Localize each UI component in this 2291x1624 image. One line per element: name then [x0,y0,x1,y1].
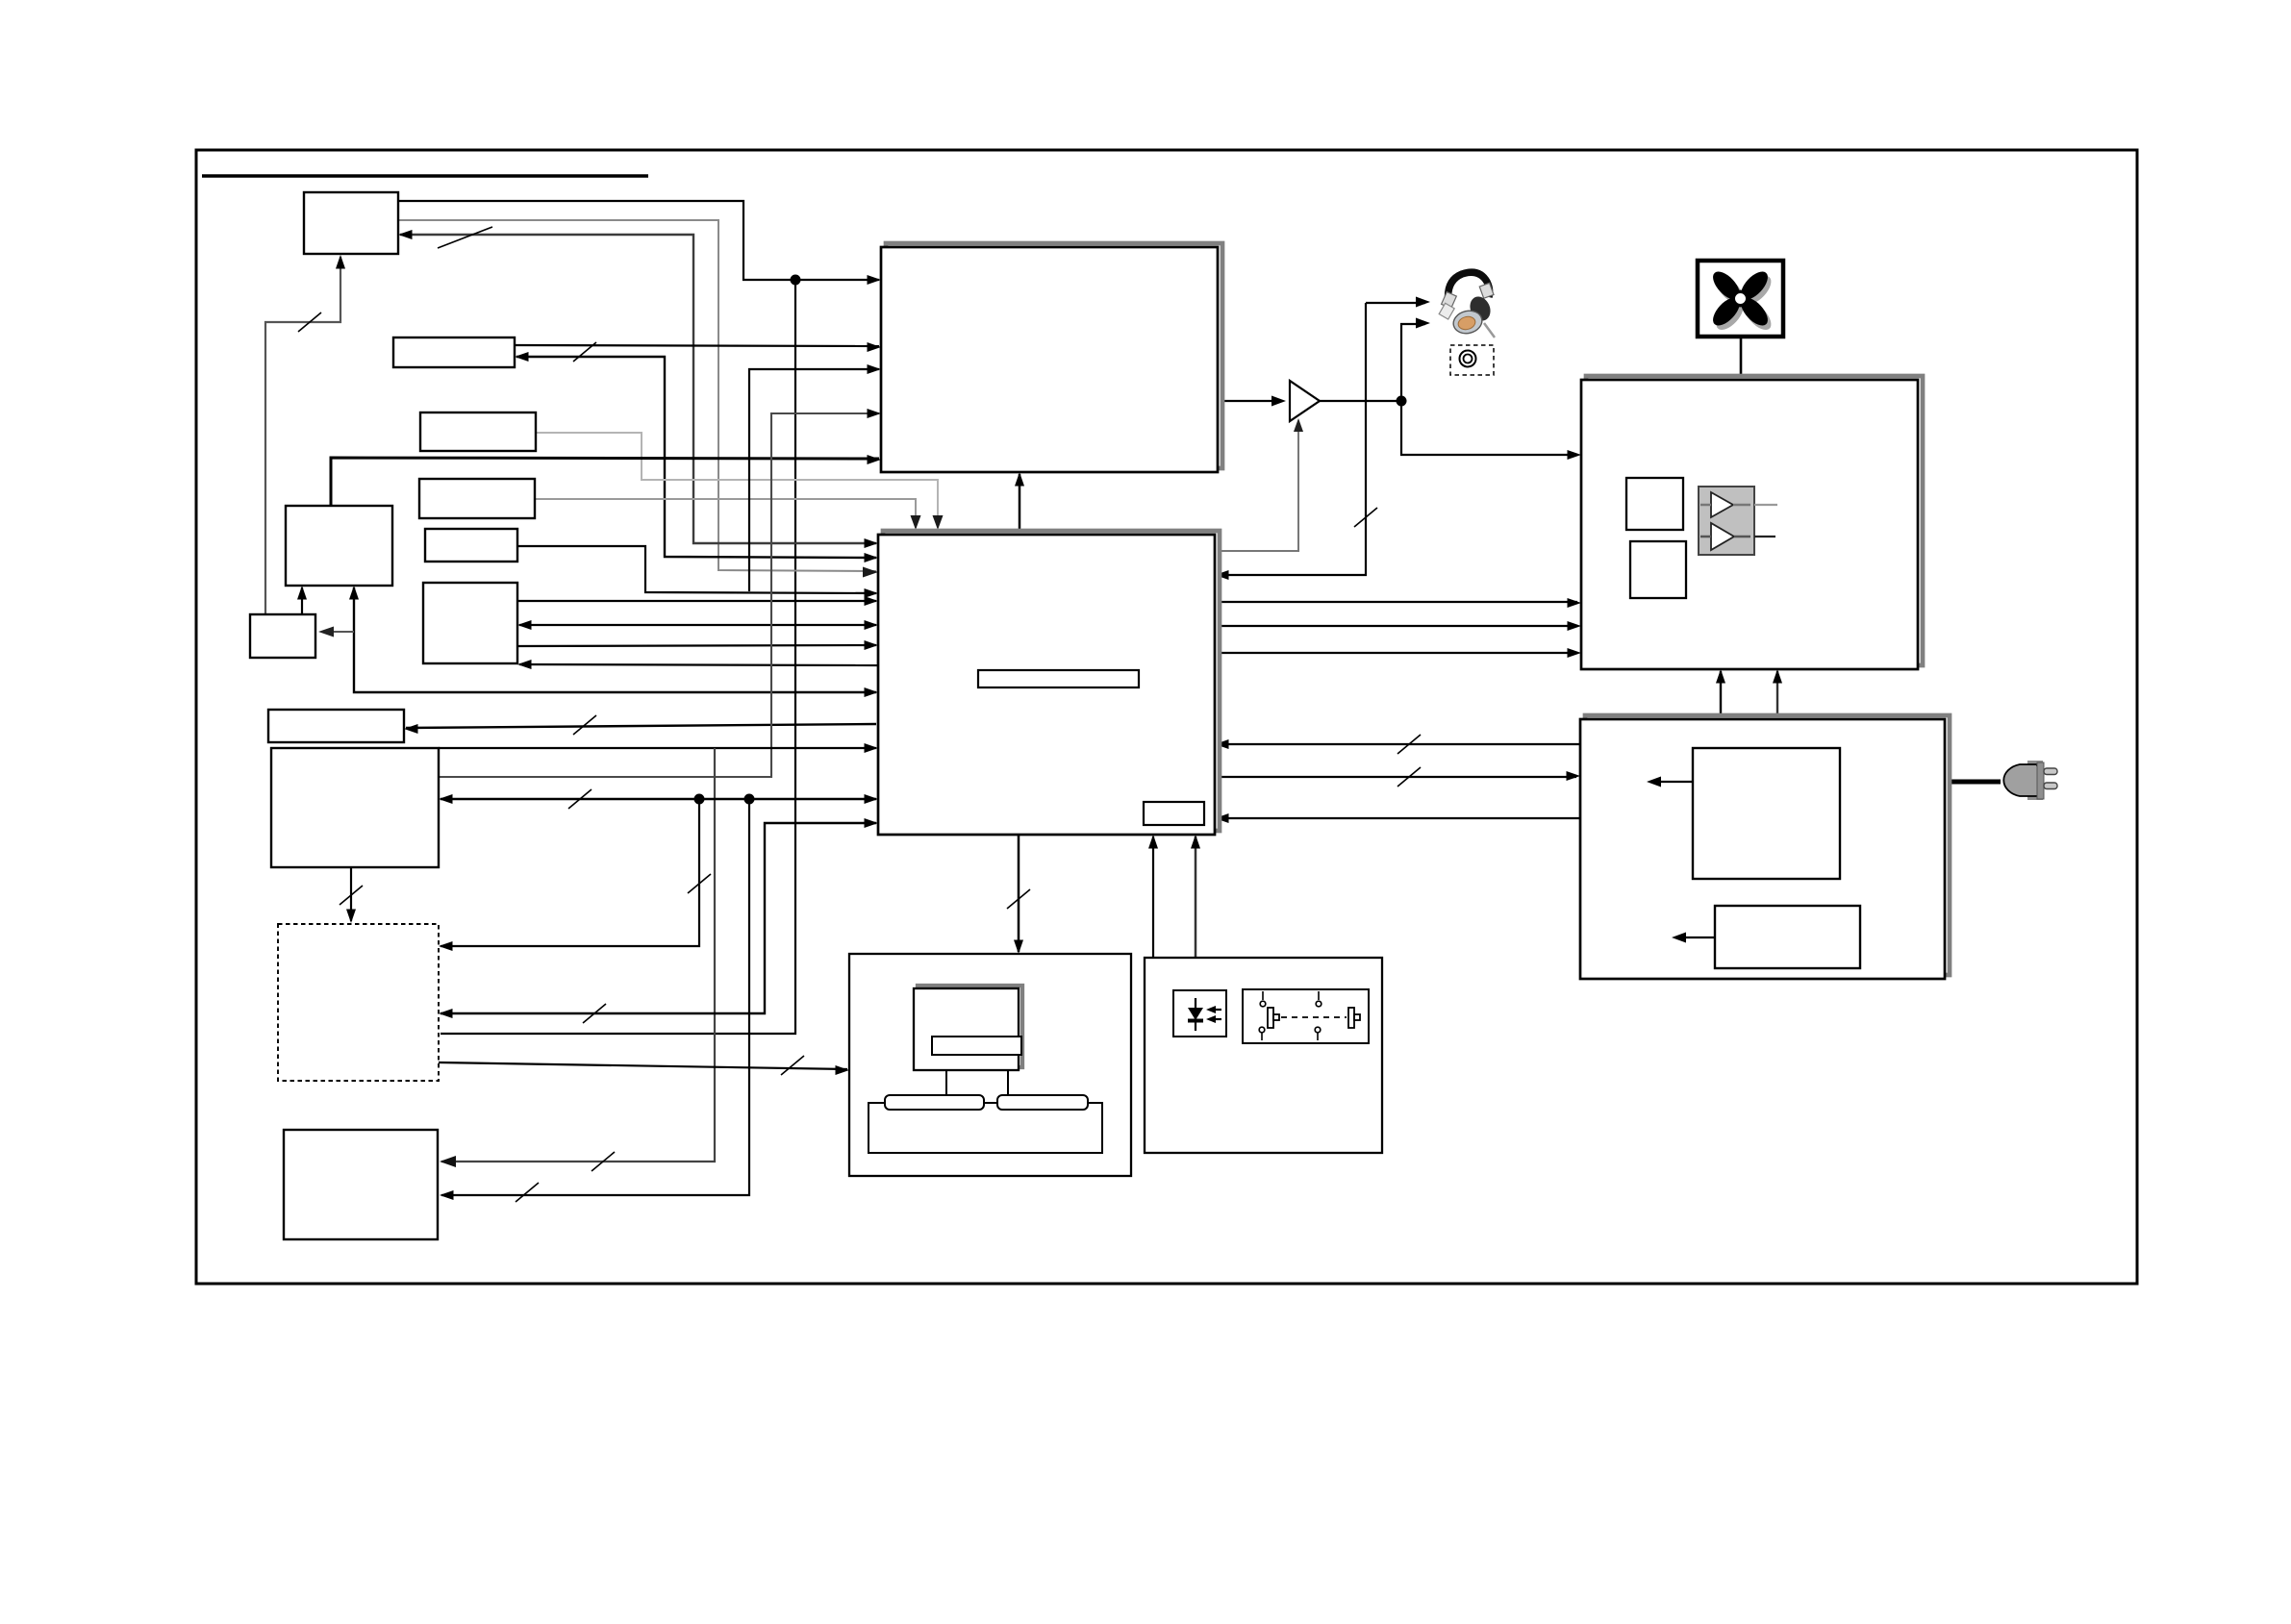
AC plug icon [2003,761,2057,800]
wire junction up to headphones [1401,318,1430,402]
wire ROM-B out to main IC [517,546,878,598]
block main IC CPU-2 [878,531,1220,835]
line-out jack icon [1450,345,1494,375]
wire small box to LCD via gray riser [265,255,345,614]
photo diode symbol D1 [1188,998,1221,1031]
block tuner pack [271,748,439,867]
wire LCD data out to CPU-1 D0 (top) [398,201,881,285]
block CD deck (dashed) [278,924,439,1081]
key switch SW2 [1315,991,1360,1040]
sub-block S2 in AV board [1630,541,1686,598]
wire SDRAM gray to main IC top [535,499,921,530]
node junction J3 [744,794,755,805]
headphones icon [1439,272,1495,337]
wire EEPROM line 2 bidirectional [517,620,878,630]
wire main IC to AV board 1 [1215,598,1581,608]
block AV board [1581,376,1923,669]
monitor block in mechanism [914,986,1022,1070]
block CD changer [284,1130,438,1239]
block tuner display [268,710,404,742]
wire EEPROM line 1 to main IC [517,596,878,606]
wire IR box to main IC line 2 [1191,835,1200,958]
wire main IC to power box control [1215,767,1580,787]
wire LCD control in (bus) [398,227,878,548]
block power supply [1580,715,1950,979]
wire LCD gray line to main IC [398,220,878,578]
wire headphone jack sense to main IC [1366,297,1430,308]
sub-block PB2 [1715,906,1860,968]
wire power to AV board 1 [1716,669,1725,719]
wire DSP to main IC link [1015,472,1024,535]
fan icon [1698,261,1783,337]
block ROM-B [425,529,517,562]
wire drop to CD changer line 1 [440,748,715,1171]
block ROM1 [393,337,515,367]
sub-block S1 in AV board [1626,478,1683,530]
node junction J1 [791,275,801,286]
wire monitor stand left [945,1070,947,1103]
block EEPROM [423,583,517,663]
wire DSP out to amplifier [1218,396,1286,407]
wire AC cord [1945,780,2001,785]
wire junction down to AV board [1401,401,1581,460]
photo diode box [1173,990,1226,1037]
wire tuner gray out to CPU-1 [439,409,881,777]
block ROM-A [420,412,536,451]
wire regulator output arrow [1647,777,1693,787]
wire monitor stand right [1007,1070,1009,1103]
pill button 1 [885,1095,984,1110]
wire small box to flash (short up arrow) [297,586,307,614]
wire fan connection [1740,337,1743,380]
wire data bus riser to CPU-1 [749,364,881,591]
wire ROM-A gray to main IC top [536,433,944,530]
switch box [1243,989,1369,1043]
wire power to AV board 2 [1773,669,1782,719]
wire tuner to CD dashed box [340,867,363,923]
wire ROM1 in bus from main IC [515,342,878,562]
wire EEPROM line 3 to main IC [517,640,878,650]
wire J2 drop to CD dashed box [439,799,711,951]
wire EEPROM line 4 from main IC [517,660,878,669]
wire tuner corner to main IC [439,743,878,753]
wire main IC to mechanism [1007,835,1030,954]
wire main IC to tuner display [404,715,876,735]
wire main IC to flash program line [349,586,878,697]
title underline [202,174,648,178]
tray rectangle [869,1103,1102,1153]
audio buffer op-amps U-A [1699,487,1777,555]
wire main IC to AV board 3 [1215,648,1581,658]
wire ROM1 out to CPU-1 [515,342,881,352]
block CPU-1 (DSP) [881,243,1222,472]
block reset IC [250,614,315,658]
block SDRAM [419,479,535,518]
wire CD dashed box bus to main IC [439,818,878,1023]
wire CD dashed box to mechanism [439,1056,849,1075]
wire branch to small box [318,627,354,637]
block LCD display [304,192,398,254]
wire amp mute control [1215,418,1303,551]
block IR receiver unit [1145,958,1382,1153]
wire PB2 output arrow [1672,933,1715,943]
wire headphone riser [1215,303,1377,580]
node junction J4 [1397,396,1407,407]
node junction J2 [694,794,705,805]
wire J1 vertical bus to CD-deck dashed box [441,280,795,1034]
wire power box to main IC supply [1215,813,1580,823]
pill button 2 [997,1095,1088,1110]
sub-block regulator PB1 [1693,748,1840,879]
wire main IC to AV board 2 [1215,621,1581,631]
wire IR box to main IC line 1 [1148,835,1158,958]
label rect inside main IC [978,670,1139,687]
small rect inside main IC [1144,802,1204,825]
wire amp output to junction [1320,400,1401,402]
block mechanism assembly [849,954,1131,1176]
wire main bus to tuner (bidirectional) [439,789,878,809]
border frame [196,150,2137,1284]
block flash memory [286,506,392,586]
label rect on monitor [932,1037,1021,1055]
dashed link between switches [1281,1016,1347,1018]
wire flash bus to CPU-1 (thick) [331,455,881,506]
wire data bus drop to changer [440,799,749,1202]
key switch SW1 [1259,991,1279,1040]
op-amp audio amplifier U2 [1290,381,1320,421]
wire power box status to main IC [1215,735,1580,754]
